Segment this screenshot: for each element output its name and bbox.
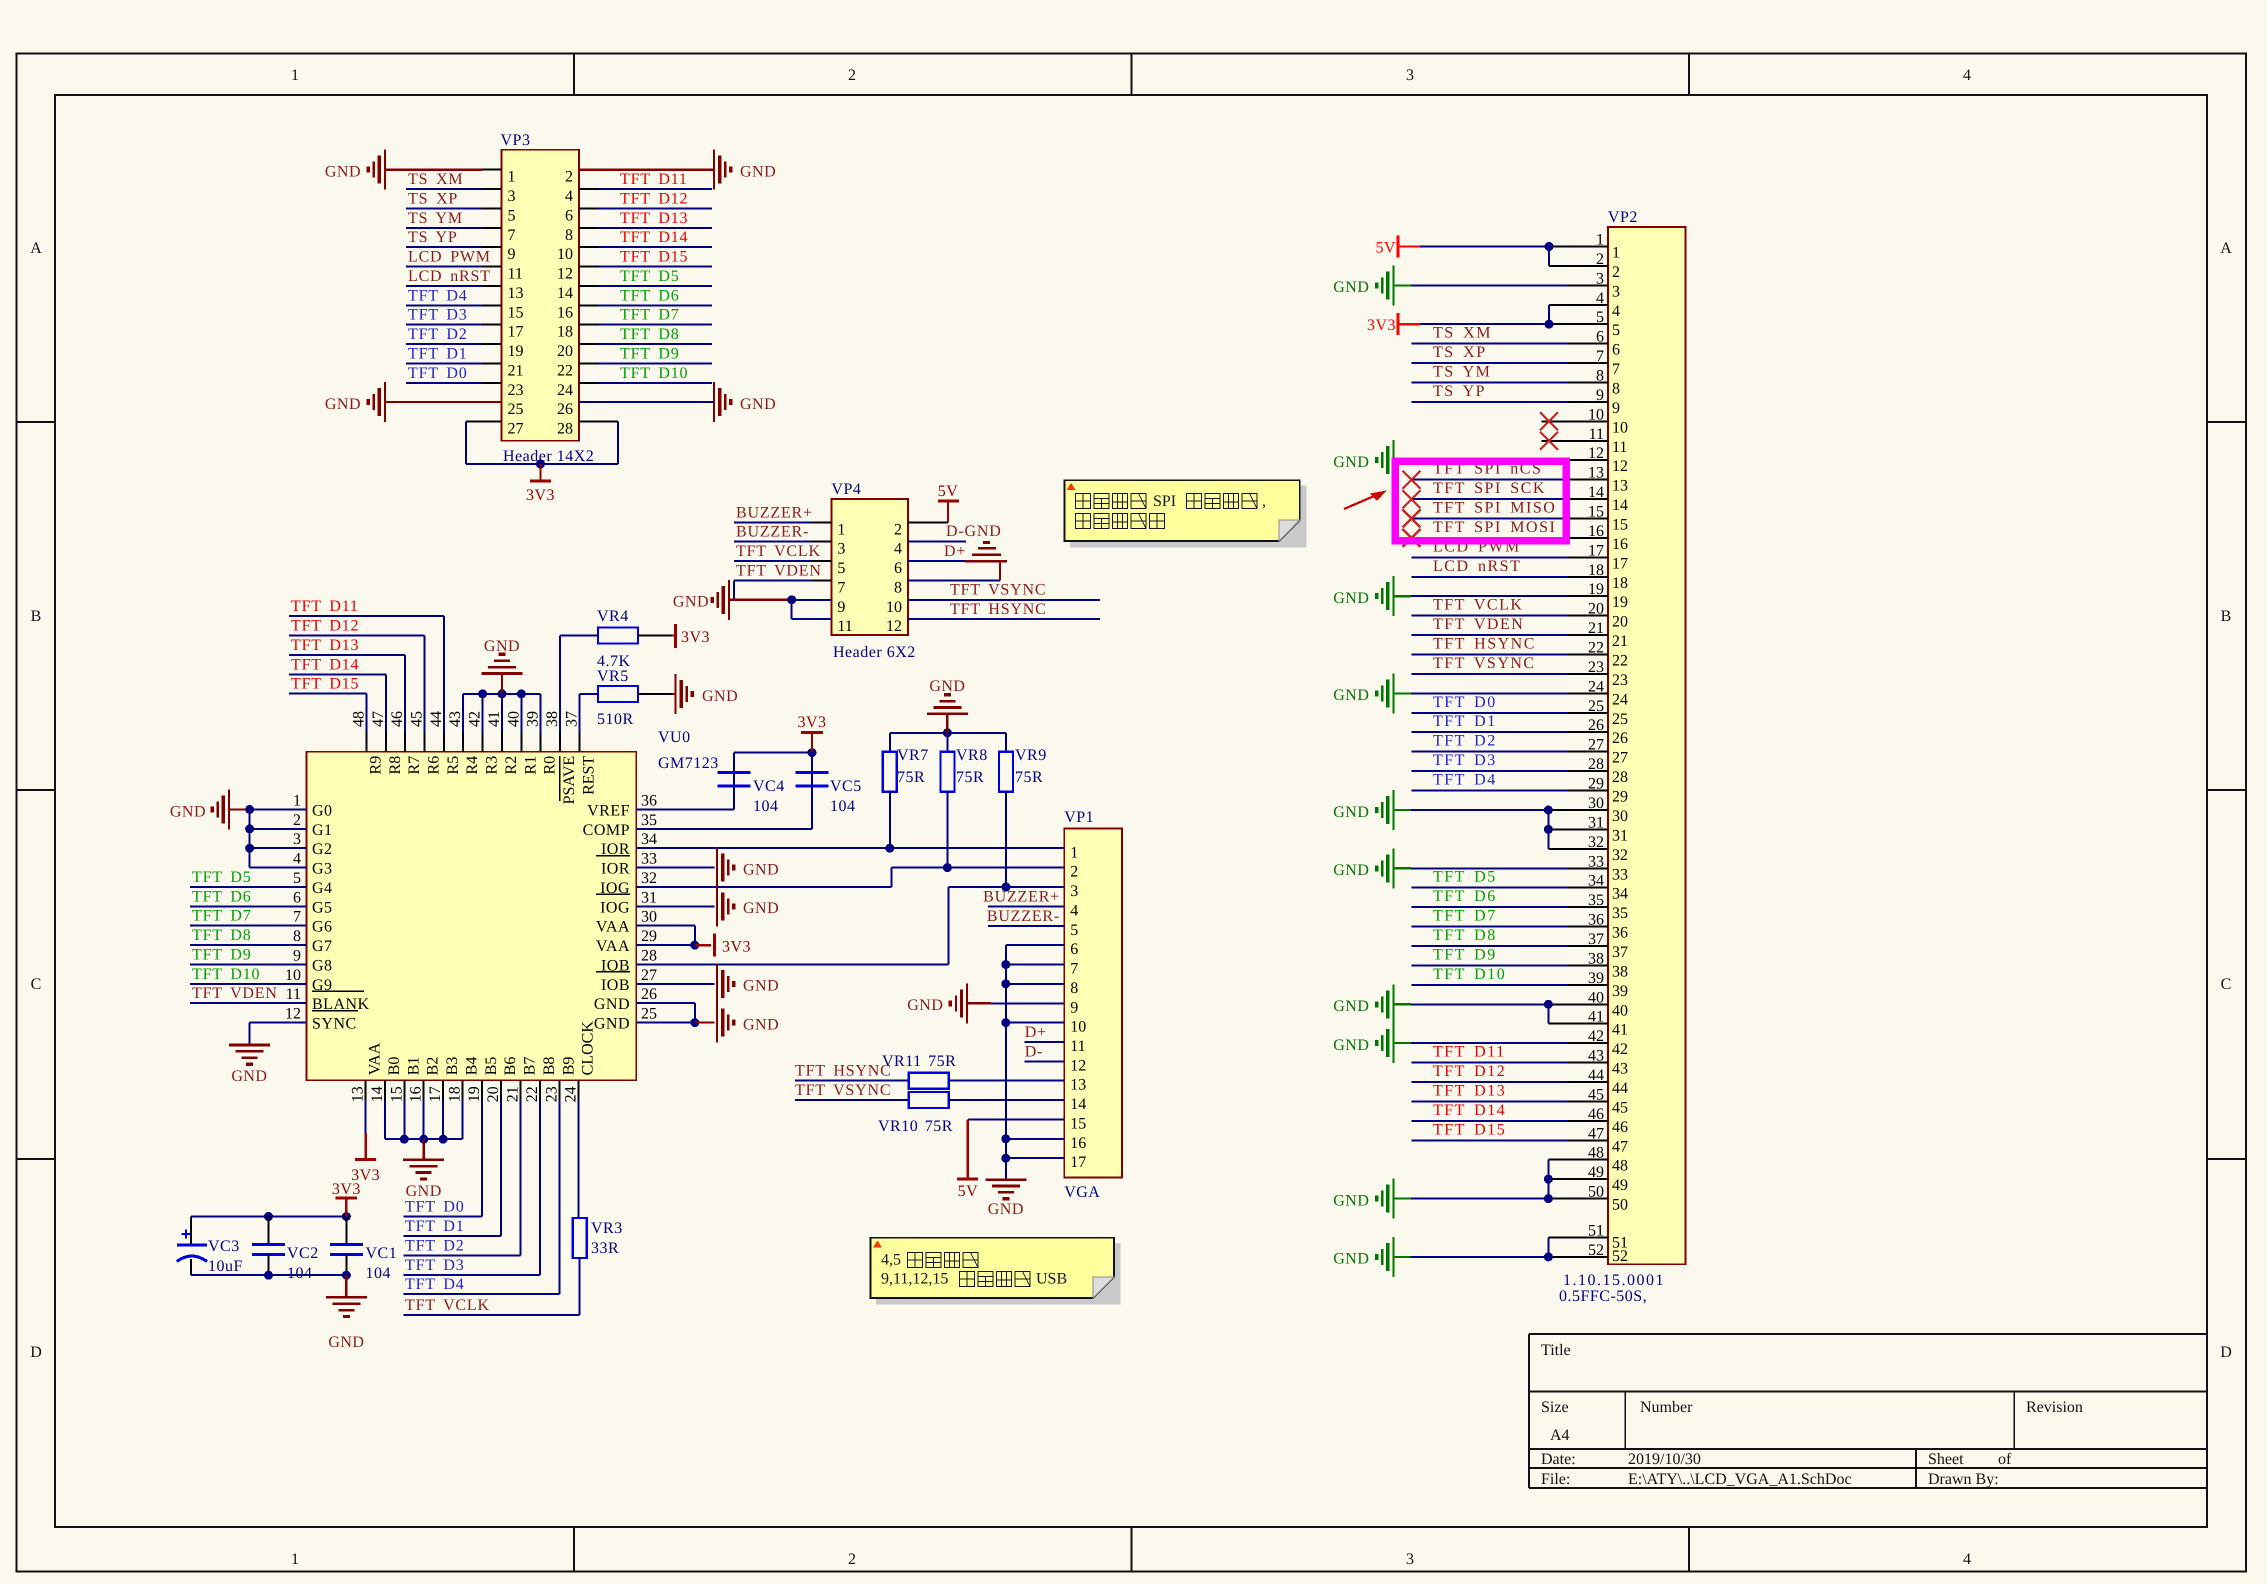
- svg-text:19: 19: [508, 343, 524, 360]
- svg-text:B6: B6: [502, 1057, 519, 1076]
- svg-text:GND: GND: [743, 978, 779, 995]
- svg-text:8: 8: [565, 227, 573, 244]
- wire VR7-9 top bus: [890, 732, 1006, 734]
- svg-text:47: 47: [370, 711, 387, 727]
- wire/net TFT D10 (VU0 pin 10): [190, 966, 307, 984]
- junction VP1 bus dots: [1001, 960, 1010, 1163]
- wire/net TFT D7 (VU0 pin 7): [190, 908, 307, 926]
- wire/net TFT D14 (VP3 pin 10): [579, 229, 712, 247]
- svg-text:TFT D12: TFT D12: [620, 190, 688, 207]
- wire/net TFT D1 (VU0 B6): [404, 1100, 502, 1236]
- svg-text:104: 104: [287, 1265, 313, 1282]
- svg-text:GND: GND: [740, 164, 776, 181]
- wire/net LCD nRST (VP2 pin18): [1412, 558, 1608, 577]
- power 3V3 (VU0 VAA pin13): [351, 1100, 380, 1184]
- highlight box SPI signals: [1395, 461, 1566, 540]
- VU0 top pin numbers: [350, 711, 580, 727]
- wire pin1: [482, 169, 502, 171]
- junction bottom bus dots: [400, 1135, 448, 1144]
- svg-text:31: 31: [641, 889, 657, 906]
- svg-text:VR3: VR3: [591, 1220, 623, 1237]
- note SPI floating: [1065, 480, 1306, 547]
- svg-text:24: 24: [557, 382, 573, 399]
- svg-text:12: 12: [1070, 1057, 1086, 1074]
- svg-text:B9: B9: [560, 1057, 577, 1076]
- svg-text:5V: 5V: [958, 1183, 979, 1200]
- svg-text:1: 1: [1070, 844, 1078, 861]
- svg-text:7: 7: [1612, 361, 1620, 378]
- svg-text:LCD PWM: LCD PWM: [408, 249, 491, 266]
- svg-text:15: 15: [508, 304, 524, 321]
- svg-text:VP3: VP3: [501, 132, 531, 149]
- svg-text:C: C: [2221, 976, 2232, 993]
- wire/net TFT D15 (VP2 pin47): [1412, 1121, 1608, 1140]
- svg-text:22: 22: [557, 362, 573, 379]
- capacitor VC5: [796, 773, 862, 816]
- svg-text:TFT D5: TFT D5: [620, 268, 680, 285]
- wire IOG jog to VP1 pin2: [636, 868, 1064, 887]
- svg-text:17: 17: [1070, 1154, 1086, 1171]
- wire SYNC pin12 to gnd: [249, 1023, 306, 1045]
- connector VP2 body: [1608, 227, 1686, 1264]
- svg-text:43: 43: [1612, 1061, 1628, 1078]
- gnd GND (VU0 G0-G3): [170, 790, 307, 830]
- junction top rail: [264, 1212, 351, 1221]
- svg-text:9: 9: [1070, 999, 1078, 1016]
- svg-text:36: 36: [641, 793, 657, 810]
- svg-text:IOB: IOB: [601, 977, 630, 994]
- wire/net TFT D8 (VP3 pin 20): [579, 326, 712, 344]
- VP2 value 0.5FFC-50S: [1559, 1288, 1647, 1305]
- svg-text:GND: GND: [1333, 454, 1369, 471]
- svg-text:GND: GND: [673, 594, 709, 611]
- svg-text:2: 2: [894, 521, 902, 538]
- junction VP2 pins30/31: [1544, 806, 1553, 834]
- svg-text:R5: R5: [445, 756, 462, 775]
- wire/net TFT SPI nCS (VP2 pin13): [1403, 461, 1608, 489]
- annotation arrow: [1344, 491, 1387, 510]
- svg-text:33R: 33R: [591, 1240, 619, 1257]
- wire/net TFT VSYNC (VP2 pin23): [1412, 655, 1608, 674]
- junction top bus dots: [478, 689, 526, 698]
- svg-text:13: 13: [508, 285, 524, 302]
- svg-text:6: 6: [1612, 342, 1620, 359]
- gnd GND (VP2 pin33): [1333, 848, 1608, 888]
- svg-text:TFT D14: TFT D14: [1433, 1102, 1506, 1119]
- svg-text:TS XP: TS XP: [408, 190, 458, 207]
- svg-text:TFT D10: TFT D10: [620, 365, 688, 382]
- VP1 value VGA: [1064, 1184, 1100, 1201]
- svg-text:43: 43: [447, 711, 464, 727]
- svg-text:VAA: VAA: [596, 919, 630, 936]
- svg-text:C: C: [31, 976, 42, 993]
- wire VAA pins 29/30: [636, 926, 695, 945]
- svg-text:37: 37: [564, 711, 581, 727]
- gnd GND (IOR- pin33): [636, 848, 779, 888]
- svg-text:10: 10: [1612, 419, 1628, 436]
- wire/net LCD PWM (VP3 pin 11): [406, 249, 502, 267]
- svg-text:38: 38: [1612, 963, 1628, 980]
- svg-text:10: 10: [1070, 1019, 1086, 1036]
- wire GND bus R1-R5 (VU0 top): [463, 694, 541, 733]
- svg-text:TFT D0: TFT D0: [408, 365, 468, 382]
- wire/net TS XM (VP3 pin 3): [406, 171, 502, 189]
- svg-text:TFT D1: TFT D1: [1433, 713, 1497, 730]
- svg-text:IOR: IOR: [601, 861, 630, 878]
- svg-text:26: 26: [641, 986, 657, 1003]
- svg-text:33: 33: [1612, 866, 1628, 883]
- wire/net TFT D6 (VU0 pin 6): [190, 888, 307, 906]
- svg-text:VR8: VR8: [956, 747, 988, 764]
- svg-text:G6: G6: [312, 919, 333, 936]
- svg-text:G3: G3: [312, 861, 333, 878]
- svg-text:26: 26: [1612, 730, 1628, 747]
- gnd GND (IOG- pin31): [636, 886, 779, 926]
- svg-text:1: 1: [291, 1551, 299, 1568]
- wire/net TFT D2 (VP2 pin27): [1412, 733, 1608, 752]
- svg-text:SYNC: SYNC: [312, 1016, 357, 1033]
- wire/net TFT D4 (VP2 pin29): [1412, 772, 1608, 791]
- svg-text:30: 30: [641, 909, 657, 926]
- svg-text:PSAVE: PSAVE: [561, 756, 578, 805]
- svg-text:11: 11: [837, 618, 852, 635]
- wire/net TFT D10 (VP2 pin39): [1412, 966, 1608, 985]
- svg-text:GND: GND: [740, 396, 776, 413]
- svg-text:39: 39: [1612, 983, 1628, 1000]
- svg-text:4: 4: [1963, 1551, 1971, 1568]
- wire/net TFT D8 (VP2 pin37): [1412, 927, 1608, 946]
- svg-text:R3: R3: [484, 756, 501, 775]
- junction VAA: [690, 941, 699, 950]
- svg-text:Size: Size: [1541, 1399, 1569, 1416]
- svg-text:TFT D0: TFT D0: [1433, 694, 1497, 711]
- svg-text:TFT D7: TFT D7: [192, 908, 252, 925]
- wire/net TFT D11 (VP3 pin 4): [579, 171, 712, 189]
- svg-text:A4: A4: [1550, 1427, 1570, 1444]
- resistor VR4: [597, 608, 638, 670]
- svg-text:14: 14: [1070, 1096, 1086, 1113]
- svg-text:29: 29: [1612, 789, 1628, 806]
- VP2 part number 1.10.15.0001: [1563, 1272, 1665, 1289]
- svg-text:TFT D10: TFT D10: [192, 966, 260, 983]
- svg-text:104: 104: [753, 798, 779, 815]
- resistor VR5: [597, 668, 638, 728]
- svg-text:VC2: VC2: [287, 1245, 319, 1262]
- gnd GND (VP3 pin26): [579, 382, 776, 422]
- svg-text:27: 27: [641, 967, 657, 984]
- svg-text:GND: GND: [1333, 1037, 1369, 1054]
- wire CLOCK-VR3-TFT VCLK: [404, 1100, 580, 1315]
- svg-text:31: 31: [1612, 827, 1628, 844]
- VU0 bottom pin numbers: [350, 1086, 580, 1102]
- svg-text:R6: R6: [426, 756, 443, 775]
- gnd GND (VP2 pin24): [1333, 673, 1608, 713]
- svg-text:G4: G4: [312, 880, 333, 897]
- svg-text:R9: R9: [367, 756, 384, 775]
- gnd GND (VP2 pins51/52): [1333, 1237, 1608, 1277]
- net TFT HSYNC (VP4 pin12): [908, 601, 1100, 619]
- wire/net TFT D5 (VP2 pin34): [1412, 869, 1608, 888]
- svg-text:TFT D8: TFT D8: [620, 326, 680, 343]
- svg-text:21: 21: [508, 362, 524, 379]
- svg-text:GND: GND: [1333, 590, 1369, 607]
- svg-text:16: 16: [408, 1086, 425, 1102]
- svg-text:104: 104: [366, 1265, 392, 1282]
- junction bottom rail: [264, 1271, 351, 1280]
- svg-text:10: 10: [557, 246, 573, 263]
- wire/net TFT VDEN (VP4 pin 7): [734, 562, 831, 580]
- svg-text:5: 5: [1070, 922, 1078, 939]
- svg-text:5: 5: [1612, 322, 1620, 339]
- svg-text:9: 9: [508, 246, 516, 263]
- svg-text:8: 8: [1070, 980, 1078, 997]
- svg-text:28: 28: [557, 421, 573, 438]
- svg-text:75R: 75R: [956, 769, 984, 786]
- gnd GND (VP2 pin12): [1333, 440, 1608, 480]
- wire/net TFT D5 (VU0 pin 5): [190, 869, 307, 887]
- svg-text:R8: R8: [387, 756, 404, 775]
- net D+ / digital ground (VP4 pin6): [908, 543, 1007, 562]
- svg-text:Header 6X2: Header 6X2: [833, 644, 916, 661]
- svg-text:14: 14: [1612, 497, 1628, 514]
- VP2 pin numbers: [1588, 232, 1628, 1265]
- svg-text:3: 3: [293, 831, 301, 848]
- svg-text:of: of: [1998, 1451, 2012, 1468]
- svg-text:VR7: VR7: [897, 747, 929, 764]
- wire/net BUZZER+ (VP4 pin 1): [734, 504, 831, 522]
- svg-text:TS YM: TS YM: [408, 210, 463, 227]
- svg-text:18: 18: [447, 1086, 464, 1102]
- gnd GND (VP4 pin9): [673, 580, 832, 620]
- svg-text:0.5FFC-50S,: 0.5FFC-50S,: [1559, 1288, 1647, 1305]
- svg-text:File:: File:: [1541, 1471, 1570, 1488]
- svg-text:GND: GND: [1333, 279, 1369, 296]
- svg-text:16: 16: [1612, 536, 1628, 553]
- VU0 right pin names and numbers: [583, 793, 657, 1033]
- svg-text:TFT D12: TFT D12: [1433, 1063, 1506, 1080]
- svg-text:510R: 510R: [597, 711, 634, 728]
- svg-text:GND: GND: [907, 997, 943, 1014]
- svg-text:3V3: 3V3: [526, 487, 555, 504]
- svg-text:6: 6: [293, 889, 301, 906]
- svg-text:BUZZER-: BUZZER-: [987, 908, 1060, 925]
- svg-text:75R: 75R: [1015, 769, 1043, 786]
- svg-text:,: ,: [1262, 493, 1266, 510]
- svg-text:TFT HSYNC: TFT HSYNC: [1433, 636, 1536, 653]
- svg-text:GND: GND: [702, 688, 738, 705]
- svg-text:TFT D3: TFT D3: [1433, 752, 1497, 769]
- wire/net LCD nRST (VP3 pin 13): [406, 268, 502, 286]
- svg-text:4,5: 4,5: [881, 1252, 901, 1269]
- svg-text:GND: GND: [231, 1068, 267, 1085]
- wire/net TFT D0 (VU0 B5): [404, 1100, 482, 1217]
- capacitor VC3 10uF polarized: [177, 1217, 243, 1276]
- svg-text:TFT D2: TFT D2: [405, 1237, 465, 1254]
- svg-text:TFT D14: TFT D14: [620, 229, 688, 246]
- svg-text:28: 28: [641, 948, 657, 965]
- svg-text:USB: USB: [1036, 1271, 1067, 1288]
- svg-text:22: 22: [524, 1086, 541, 1102]
- svg-text:19: 19: [1612, 594, 1628, 611]
- wire VR4 left to U pin38: [560, 636, 598, 733]
- svg-text:22: 22: [1612, 653, 1628, 670]
- wire IOR to VP1 pin1: [636, 847, 1064, 849]
- svg-text:11: 11: [286, 986, 301, 1003]
- wire/net TFT D10 (VP3 pin 24): [579, 365, 712, 383]
- svg-text:VGA: VGA: [1064, 1184, 1100, 1201]
- wire/net TFT SPI SCK (VP2 pin14): [1403, 480, 1608, 508]
- svg-text:D+: D+: [944, 543, 966, 560]
- svg-text:G1: G1: [312, 822, 333, 839]
- power 3V3 (VC4/VC5): [797, 714, 826, 753]
- svg-text:15: 15: [388, 1086, 405, 1102]
- capacitor VC1 104: [330, 1217, 397, 1283]
- svg-text:B7: B7: [522, 1057, 539, 1076]
- junction VR8 top: [943, 728, 952, 737]
- svg-text:34: 34: [641, 831, 657, 848]
- net TFT VSYNC (VP1 pin14): [795, 1082, 1064, 1100]
- title block: [1529, 1334, 2207, 1488]
- svg-text:38: 38: [544, 711, 561, 727]
- wire/net TFT SPI MISO (VP2 pin15): [1403, 500, 1608, 528]
- svg-text:4: 4: [1612, 303, 1620, 320]
- svg-text:44: 44: [1612, 1080, 1628, 1097]
- capacitor VC2 104: [252, 1217, 319, 1283]
- svg-text:1: 1: [837, 521, 845, 538]
- svg-text:TFT D13: TFT D13: [1433, 1082, 1506, 1099]
- svg-text:25: 25: [508, 401, 524, 418]
- svg-text:25: 25: [641, 1006, 657, 1023]
- svg-text:GND: GND: [743, 900, 779, 917]
- wire VREF to VC4: [636, 753, 734, 810]
- VP3 value Header 14X2: [503, 448, 594, 465]
- svg-text:TFT D15: TFT D15: [620, 249, 688, 266]
- no-connect VP2 pin11: [1540, 432, 1608, 450]
- wire VP1 gnd bus pins 6-17: [1006, 945, 1064, 1180]
- svg-text:3: 3: [508, 188, 516, 205]
- power 3V3 (VP3): [526, 464, 555, 504]
- svg-text:3V3: 3V3: [797, 714, 826, 731]
- no-connect VP2 pin10: [1540, 412, 1608, 430]
- svg-text:GND: GND: [1333, 862, 1369, 879]
- svg-text:D-GND: D-GND: [946, 523, 1002, 540]
- designator VP1: [1064, 809, 1094, 826]
- svg-text:8: 8: [293, 928, 301, 945]
- VP4 value Header 6X2: [833, 644, 916, 661]
- svg-text:VC3: VC3: [208, 1238, 240, 1255]
- wire/net TFT D13 (VP3 pin 8): [579, 210, 712, 228]
- svg-text:B2: B2: [425, 1057, 442, 1076]
- wire/net TFT D4 (VU0 B9): [404, 1100, 560, 1295]
- svg-text:TFT D9: TFT D9: [1433, 946, 1497, 963]
- wire VC4-VC5 top link: [734, 752, 812, 754]
- svg-text:TFT D6: TFT D6: [1433, 888, 1497, 905]
- svg-text:1: 1: [1612, 245, 1620, 262]
- svg-text:R4: R4: [464, 756, 481, 775]
- capacitor VC4: [718, 773, 785, 816]
- svg-text:20: 20: [1612, 614, 1628, 631]
- svg-text:4: 4: [565, 188, 573, 205]
- svg-text:A: A: [2220, 240, 2232, 257]
- svg-text:11: 11: [508, 266, 523, 283]
- svg-text:7: 7: [837, 579, 845, 596]
- svg-text:11: 11: [1612, 439, 1627, 456]
- VU0 top pin stubs: [366, 732, 579, 751]
- svg-text:4: 4: [1070, 902, 1078, 919]
- svg-text:7: 7: [1070, 961, 1078, 978]
- wire/net TFT D15 (VU0): [289, 676, 366, 733]
- svg-text:16: 16: [1070, 1135, 1086, 1152]
- wire/net TS YM (VP2 pin8): [1412, 364, 1608, 383]
- svg-text:12: 12: [886, 618, 902, 635]
- svg-text:G5: G5: [312, 899, 333, 916]
- svg-text:VU0: VU0: [658, 729, 691, 746]
- svg-text:20: 20: [485, 1086, 502, 1102]
- svg-text:TFT D14: TFT D14: [291, 656, 359, 673]
- svg-text:TFT HSYNC: TFT HSYNC: [950, 601, 1047, 618]
- junction VP2 pin52: [1544, 1252, 1553, 1261]
- svg-text:5: 5: [837, 560, 845, 577]
- svg-text:19: 19: [466, 1086, 483, 1102]
- wire/net BUZZER- (VP4 pin 3): [734, 524, 831, 542]
- resistor VR7 75R: [883, 733, 929, 849]
- svg-text:GND: GND: [1333, 1192, 1369, 1209]
- svg-text:2: 2: [1070, 864, 1078, 881]
- svg-text:BUZZER+: BUZZER+: [983, 888, 1060, 905]
- svg-text:CLOCK: CLOCK: [580, 1021, 597, 1076]
- svg-text:3: 3: [1406, 1551, 1414, 1568]
- wire VP4 pin8 to D-GND symbol: [908, 561, 1000, 580]
- svg-text:TFT D11: TFT D11: [291, 598, 359, 615]
- wire GND pins 25/26: [636, 1003, 695, 1022]
- svg-text:GND: GND: [1333, 1251, 1369, 1268]
- svg-text:26: 26: [557, 401, 573, 418]
- svg-text:B1: B1: [405, 1057, 422, 1076]
- svg-text:Drawn By:: Drawn By:: [1928, 1471, 1999, 1488]
- svg-text:5: 5: [293, 870, 301, 887]
- svg-text:13: 13: [1070, 1077, 1086, 1094]
- gnd GND (VP3 pin2): [579, 150, 776, 190]
- power 3V3 (VAA): [695, 934, 751, 957]
- svg-text:9: 9: [293, 948, 301, 965]
- svg-text:48: 48: [1612, 1158, 1628, 1175]
- wire/net TFT D9 (VP2 pin38): [1412, 946, 1608, 965]
- svg-text:TFT D2: TFT D2: [408, 326, 468, 343]
- svg-text:10: 10: [886, 599, 902, 616]
- VU0 bottom pin names: [367, 1021, 597, 1076]
- wire/net TFT D12 (VP3 pin 6): [579, 190, 712, 208]
- svg-text:9: 9: [1612, 400, 1620, 417]
- wire/net TFT D7 (VP2 pin36): [1412, 908, 1608, 927]
- junction 3V3 caps: [808, 748, 817, 757]
- svg-text:TFT D5: TFT D5: [192, 869, 252, 886]
- svg-text:15: 15: [1612, 517, 1628, 534]
- svg-text:24: 24: [1612, 691, 1628, 708]
- svg-text:GND: GND: [484, 638, 520, 655]
- svg-text:TFT VSYNC: TFT VSYNC: [795, 1082, 891, 1099]
- gnd GND (VP2 pin3): [1333, 265, 1608, 305]
- wire/net TFT VDEN (VP2 pin21): [1412, 616, 1608, 635]
- svg-text:18: 18: [557, 324, 573, 341]
- svg-text:B0: B0: [386, 1057, 403, 1076]
- wire/net TFT VCLK (VP4 pin 5): [734, 543, 831, 561]
- svg-text:LCD nRST: LCD nRST: [408, 268, 491, 285]
- svg-text:46: 46: [389, 711, 406, 727]
- svg-text:TFT D1: TFT D1: [405, 1218, 465, 1235]
- svg-text:45: 45: [1612, 1099, 1628, 1116]
- svg-text:21: 21: [1612, 633, 1628, 650]
- wire/net TFT D8 (VU0 pin 8): [190, 927, 307, 945]
